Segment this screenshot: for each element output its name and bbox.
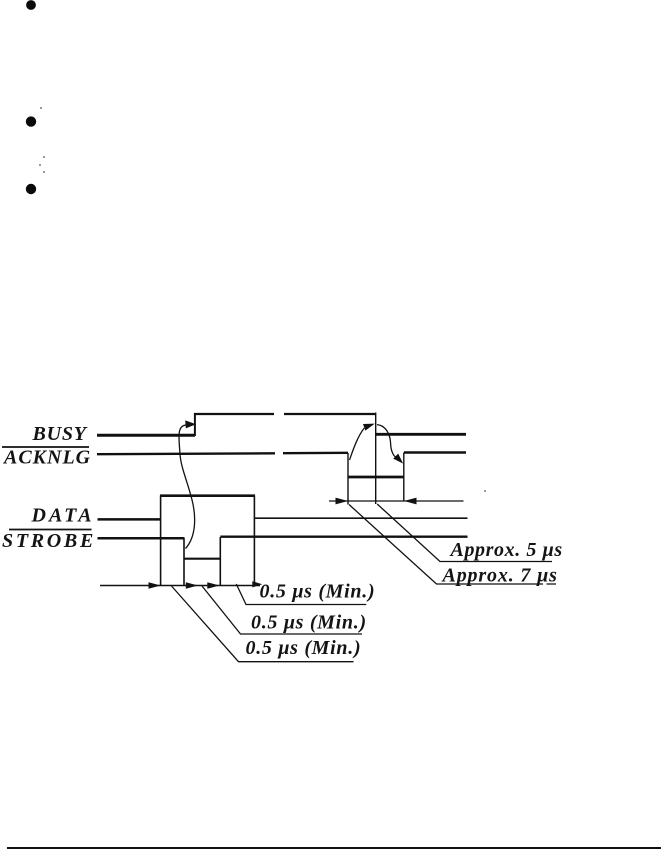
bullet 1 (26, 0, 36, 10)
value label Approx. 7 us (441, 565, 558, 587)
label ACKNLG (2, 447, 91, 469)
svg-text:Approx. 5 μs: Approx. 5 μs (449, 539, 563, 561)
dimension arrow pointing right at ACKNLG fall (336, 498, 349, 505)
scan speck near bullets (39, 107, 486, 492)
leader line to Approx. 5 us label (377, 504, 552, 562)
value label 0.5 us (Min.) third (246, 637, 362, 659)
wire BUSY falling edge with extension line down to leader (375, 413, 377, 505)
wire ACKNLG high left segment b (283, 452, 348, 455)
leader line to Approx. 7 us label (349, 505, 556, 585)
wire STROBE high right segment (220, 536, 467, 538)
dimension arrow pointing right at DATA hold end (252, 581, 262, 587)
curved cause arrow from STROBE falling edge to BUSY rising edge (179, 420, 196, 548)
bullet 2 (26, 116, 36, 126)
wire BUSY low right segment (376, 433, 466, 436)
leader line to third 0.5 us label (172, 586, 354, 662)
value label Approx. 5 us (449, 539, 563, 561)
dimension arrow pointing right inside STROBE pulse (186, 582, 198, 589)
dimension arrow pointing right at STROBE rise (207, 582, 219, 589)
wire ACKNLG high right segment (404, 451, 466, 453)
svg-text:BUSY: BUSY (32, 423, 88, 445)
dimension arrow pointing right at DATA setup (149, 582, 161, 589)
svg-text:0.5 μs (Min.): 0.5 μs (Min.) (251, 612, 367, 634)
wire BUSY rising edge (194, 413, 196, 436)
bullet 3 (26, 184, 36, 194)
wire DATA pulse right edge with extension down to dimension line (253, 496, 255, 586)
curved cause arrow from BUSY falling edge to ACKNLG rising edge (377, 425, 403, 464)
label STROBE (2, 530, 96, 552)
wire BUSY high segment a (194, 413, 274, 415)
dimension arrow pointing left at ACKNLG rise (404, 498, 417, 505)
svg-text:Approx. 7 μs: Approx. 7 μs (441, 565, 558, 587)
wire STROBE rising edge with extension down to dimension line (219, 537, 221, 586)
label DATA (31, 505, 95, 527)
value label 0.5 us (Min.) first (260, 581, 376, 603)
ACKNLG overline (2, 446, 89, 448)
leader line to second 0.5 us label (202, 586, 362, 634)
wire DATA pulse left edge with extension down to dimension line (160, 496, 162, 586)
wire STROBE falling edge with extension down to dimension line (183, 538, 185, 586)
wire DATA line right segment (254, 517, 467, 519)
svg-text:DATA: DATA (31, 505, 95, 527)
wire DATA pulse top (160, 494, 255, 497)
wire BUSY low left segment (97, 434, 195, 437)
STROBE overline (9, 529, 92, 531)
label BUSY (32, 423, 88, 445)
wire STROBE low segment (184, 558, 221, 560)
svg-text:0.5 μs (Min.): 0.5 μs (Min.) (246, 637, 362, 659)
bottom timing reference line (100, 585, 260, 587)
leader line to first 0.5 us label (236, 584, 366, 605)
svg-text:ACKNLG: ACKNLG (2, 447, 91, 469)
wire ACKNLG falling edge with extension down to leader (347, 453, 349, 505)
value label 0.5 us (Min.) second (251, 612, 367, 634)
wire ACKNLG high left segment a (97, 452, 275, 455)
curved cause arrow from ACKNLG falling edge to BUSY falling edge (350, 424, 375, 460)
wire ACKNLG rising edge with extension down to dimension line (403, 453, 405, 502)
bottom horizontal rule (7, 847, 661, 849)
svg-text:0.5 μs (Min.): 0.5 μs (Min.) (260, 581, 376, 603)
svg-text:STROBE: STROBE (2, 530, 96, 552)
wire ACKNLG low segment (348, 476, 404, 479)
wire STROBE high left segment (98, 537, 185, 540)
wire BUSY high segment b (284, 413, 376, 415)
dimension line for ACKNLG pulse group (329, 500, 464, 502)
wire DATA line left segment (98, 518, 162, 521)
